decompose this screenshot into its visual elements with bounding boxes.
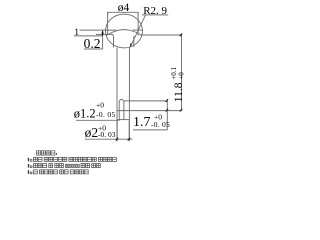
apex line right segment [133, 29, 143, 31]
tip bullet right [123, 102, 125, 120]
1.7 label shelf [133, 129, 167, 131]
shoulder extension line (1.7 bottom / 11.8 bottom) [117, 110, 182, 112]
svg-text:ø2: ø2 [85, 125, 99, 140]
node apex line (dim 1 top extension) [80, 29, 117, 31]
dia2 label shelf / dimension line [85, 138, 133, 140]
svg-text:ø4: ø4 [118, 2, 130, 14]
svg-text:1: 1 [74, 28, 79, 38]
dim arrows bar (1 / 0.2) [102, 30, 104, 36]
11.8 dimension vertical [181, 35, 183, 111]
svg-text:0.2: 0.2 [84, 36, 101, 51]
dia4 extension line right [137, 12, 139, 35]
dia2 extension right [128, 120, 130, 140]
svg-text:11.8: 11.8 [173, 82, 185, 102]
dia4 dimension line [108, 12, 139, 16]
text 11.8 rotated [170, 67, 186, 103]
tip bullet cap [119, 99, 124, 102]
svg-text:ø1.2: ø1.2 [74, 107, 96, 121]
notes title [37, 151, 41, 155]
shaft left edge [116, 48, 118, 142]
under-head plane left + corner [96, 34, 114, 47]
svg-text:-0. 05: -0. 05 [151, 120, 170, 129]
11.8 top extension line [141, 34, 182, 36]
R2.9 arrowhead [130, 43, 132, 48]
11.8 tick top [179, 33, 182, 37]
0.2 underline [84, 48, 103, 50]
svg-text:-0. 03: -0. 03 [98, 130, 116, 139]
svg-text:+0: +0 [177, 72, 185, 80]
dia4 extension line left [107, 12, 109, 34]
dia2 extension left [116, 120, 118, 140]
dome silhouette arc [106, 30, 142, 36]
1.7 top extension line [124, 100, 167, 102]
R2.9 leader [130, 15, 145, 47]
R2.9 underline [142, 14, 168, 16]
part bottom face [117, 119, 129, 121]
notes line 3 [28, 170, 29, 174]
svg-text:+0: +0 [96, 101, 104, 110]
0.2 connector vertical [102, 30, 104, 49]
dia2 tick right [127, 137, 130, 140]
dia2 tick left [115, 137, 118, 140]
tip bullet left [118, 102, 120, 120]
technical notes text block (simulated tiny CJK) [28, 151, 117, 174]
svg-text:R2. 9: R2. 9 [143, 5, 167, 17]
1.7 tick bottom [165, 109, 168, 112]
svg-text:1.7: 1.7 [133, 115, 151, 130]
notes line 2 [28, 164, 29, 168]
leader shelf of 1 [74, 35, 103, 37]
head right side vertical [133, 36, 135, 47]
1.7 tick top [165, 99, 168, 102]
dia1.2 label shelf [76, 119, 120, 121]
shaft right edge [128, 47, 130, 141]
1.7 dimension vertical [166, 101, 168, 130]
svg-text:-0. 05: -0. 05 [96, 110, 116, 119]
sphere head circle R2.9 [106, 14, 143, 48]
11.8 tick bottom [179, 109, 182, 112]
notes line 1 [28, 158, 29, 162]
